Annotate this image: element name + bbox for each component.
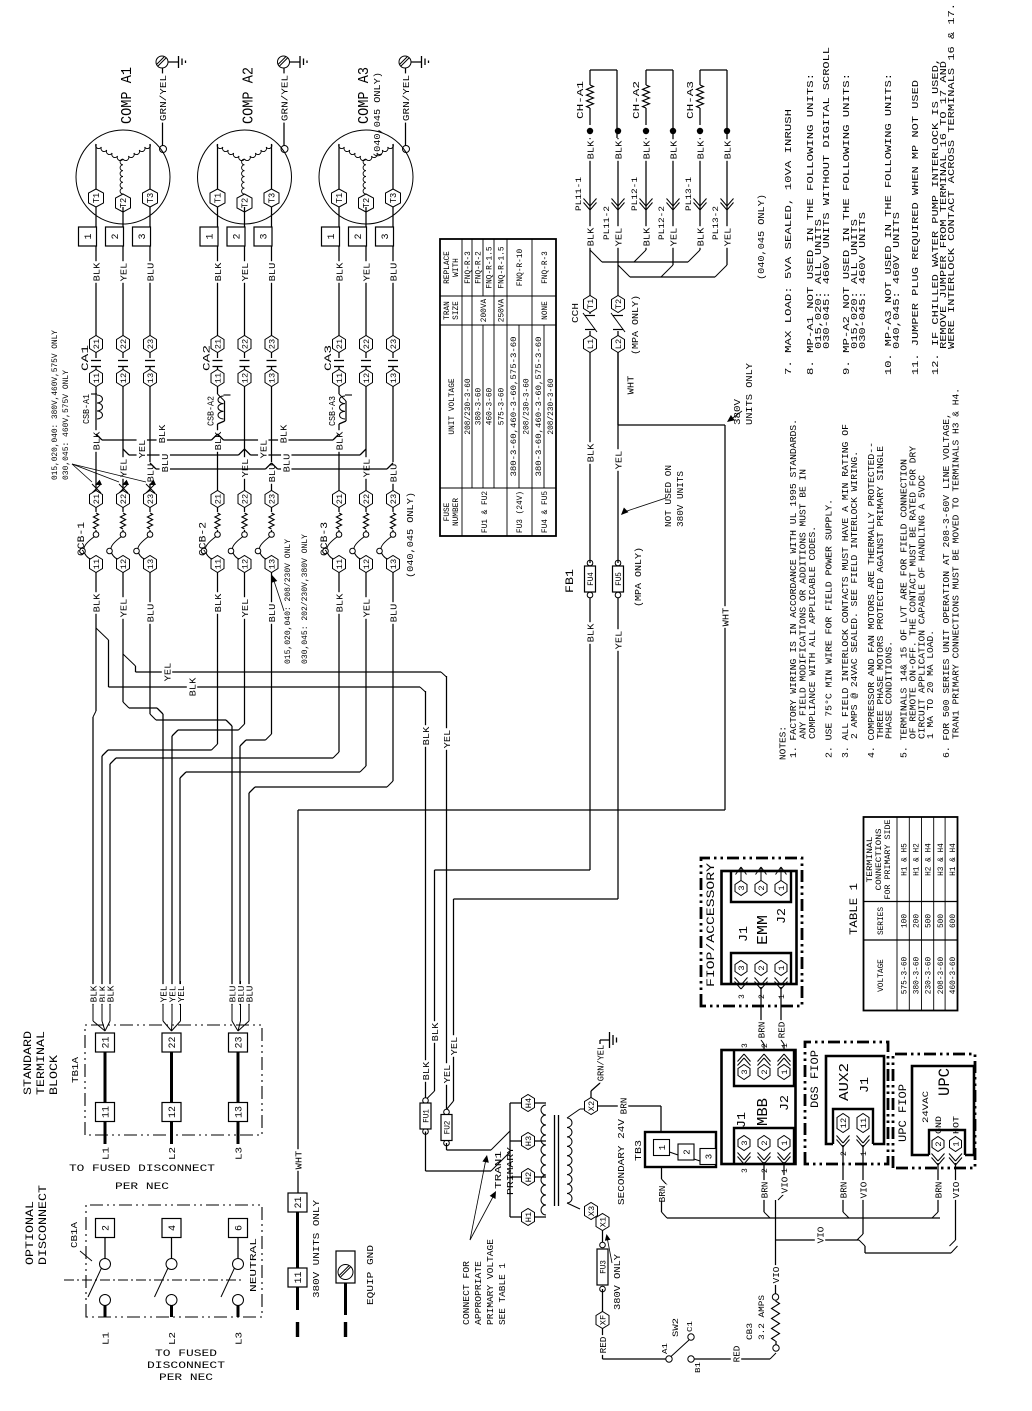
svg-text:PL11-2: PL11-2 <box>603 206 612 240</box>
terminal TB1A 12 <box>162 1103 181 1122</box>
wire PL12-2 <box>668 138 680 265</box>
fuse FU1 <box>420 1098 432 1135</box>
svg-text:J2: J2 <box>778 1095 792 1111</box>
svg-text:BLK: BLK <box>334 262 345 281</box>
svg-text:BLK: BLK <box>695 227 706 246</box>
terminal TB1A 11 <box>96 1103 115 1122</box>
wires CCB-2 outputs <box>212 573 278 652</box>
svg-text:22: 22 <box>119 494 129 504</box>
pin EMM J1 2 <box>755 961 768 1000</box>
svg-text:BLK: BLK <box>695 140 706 159</box>
svg-text:2 AMPS @ 24VAC SEALED. SEE FIE: 2 AMPS @ 24VAC SEALED. SEE FIELD INTERLO… <box>850 451 860 739</box>
svg-text:TRAN1 PRIMARY CONNECTIONS MUST: TRAN1 PRIMARY CONNECTIONS MUST BE MOVED … <box>952 388 962 739</box>
svg-text:DISCONNECT: DISCONNECT <box>38 1185 50 1265</box>
svg-text:YEL: YEL <box>162 662 173 681</box>
svg-text:FOR PRIMARY SIDE: FOR PRIMARY SIDE <box>885 819 893 899</box>
pin MBB J1 2 <box>758 1136 771 1174</box>
wire T2 to PL11-2 <box>613 138 625 296</box>
svg-text:VIO: VIO <box>815 1226 826 1243</box>
terminal neutral 11 <box>288 1268 307 1287</box>
svg-text:TABLE 1: TABLE 1 <box>849 883 861 935</box>
svg-text:TRAN1: TRAN1 <box>493 1151 504 1189</box>
svg-text:2: 2 <box>840 1151 849 1156</box>
wire PL13-1 <box>695 138 707 250</box>
breaker CB3 3.2 AMPS <box>745 1294 780 1351</box>
terminal block TB1A outline <box>85 1025 262 1135</box>
svg-text:H1 & H4: H1 & H4 <box>950 843 958 876</box>
svg-text:FNQ-R-1.5: FNQ-R-1.5 <box>487 246 495 288</box>
svg-text:11: 11 <box>294 1271 305 1283</box>
svg-text:CONNECTIONS: CONNECTIONS <box>876 828 884 890</box>
svg-text:21: 21 <box>335 339 345 349</box>
svg-text:250VA: 250VA <box>499 298 507 322</box>
terminal TRAN1 H4 <box>522 1095 547 1112</box>
wires CCB-3 outputs <box>334 573 400 652</box>
wires CCB-1 outputs <box>91 573 157 652</box>
table fuse replacement <box>440 239 556 536</box>
wire PL12-1 <box>641 138 653 250</box>
svg-text:3: 3 <box>260 233 271 239</box>
svg-text:BLK: BLK <box>91 593 102 612</box>
junction dot PL12-1 <box>643 128 649 134</box>
svg-text:3: 3 <box>741 1043 750 1048</box>
svg-text:FUSE: FUSE <box>444 502 452 521</box>
marker box 3 COMP A3 <box>376 227 394 246</box>
svg-text:BRN: BRN <box>759 1182 770 1199</box>
wire RED XF to SW2 <box>597 1329 665 1360</box>
svg-text:500: 500 <box>926 914 934 928</box>
svg-text:COMPLIANCE WITH ALL APPLICABLE: COMPLIANCE WITH ALL APPLICABLE CODES. <box>808 526 818 739</box>
svg-text:22: 22 <box>119 339 129 349</box>
svg-text:3: 3 <box>381 233 392 239</box>
svg-text:WHT: WHT <box>720 607 731 626</box>
marker box 2 COMP A3 <box>349 227 367 246</box>
bus labels <box>137 423 172 474</box>
svg-text:TERMINAL: TERMINAL <box>867 836 875 882</box>
wire BRN TB3 to bus <box>656 1167 668 1218</box>
svg-text:100: 100 <box>901 914 909 928</box>
svg-text:200VA: 200VA <box>481 298 489 322</box>
svg-text:BLK: BLK <box>668 140 679 159</box>
wire RED SW2 to CB3 <box>694 1344 776 1364</box>
pin MBB J2 2 <box>758 1043 771 1080</box>
marker box 2 COMP A1 <box>106 227 124 246</box>
wire YEL FU2 feed <box>441 676 453 1110</box>
module UPC <box>912 1066 974 1155</box>
svg-text:COMP A1: COMP A1 <box>119 67 136 124</box>
junction dot PL11-1 <box>587 128 593 134</box>
svg-text:1: 1 <box>777 885 787 890</box>
bus BLU rows 1-2 <box>150 463 272 469</box>
switch pole CB1A L3 <box>221 1238 244 1318</box>
tap bus BLK to FU1 <box>96 628 426 698</box>
svg-text:FU4: FU4 <box>587 572 596 586</box>
wire BRN EMM to MBB <box>756 987 768 1049</box>
svg-text:3: 3 <box>737 965 747 970</box>
svg-text:UPC: UPC <box>936 1068 954 1096</box>
fuse FU4 <box>585 560 597 870</box>
junction dot PL12-2 <box>670 128 676 134</box>
svg-text:BRN: BRN <box>618 1098 629 1115</box>
label TO FUSED DISCONNECT PER NEC (CB1A) <box>147 1348 225 1384</box>
wire COMP A2 lead 2 YEL <box>239 207 251 336</box>
svg-text:FNQ-R-10: FNQ-R-10 <box>517 248 525 286</box>
svg-text:3: 3 <box>740 1069 750 1074</box>
module AUX2 <box>826 1056 884 1144</box>
svg-text:NOTES:: NOTES: <box>779 726 789 760</box>
wire T1 to PL11-1 <box>585 138 597 296</box>
svg-text:C1: C1 <box>687 1320 695 1332</box>
bus YEL rows 1-2 <box>123 449 245 455</box>
wire staircase 3 <box>102 651 218 1005</box>
wire RED EMM to MBB <box>776 987 788 1049</box>
current sensor CSB-A2 <box>207 387 231 427</box>
svg-text:BLOCK: BLOCK <box>49 1055 61 1095</box>
svg-text:BRN: BRN <box>756 1022 767 1039</box>
svg-text:T1: T1 <box>214 193 224 203</box>
svg-text:SEE TABLE 1: SEE TABLE 1 <box>498 1263 508 1325</box>
svg-text:13: 13 <box>235 1106 246 1118</box>
current sensor CSB-A1 <box>82 387 103 425</box>
svg-text:UNIT VOLTAGE: UNIT VOLTAGE <box>449 378 457 434</box>
pin AUX2 J1 11 <box>857 1114 870 1157</box>
svg-text:BLU: BLU <box>145 262 156 281</box>
wire YEL FB1 feed <box>447 899 619 1110</box>
svg-text:YEL: YEL <box>442 729 453 748</box>
svg-text:CSB-A1: CSB-A1 <box>82 394 92 424</box>
svg-text:FNQ-R-2: FNQ-R-2 <box>476 251 484 284</box>
contactor CCH pole 2 <box>611 296 625 353</box>
svg-text:600: 600 <box>950 914 958 928</box>
svg-text:460-3-60: 460-3-60 <box>487 387 495 425</box>
svg-text:GRN/YEL: GRN/YEL <box>279 75 290 122</box>
svg-text:CH-A2: CH-A2 <box>631 81 642 119</box>
wire BRN AUX2 to bus <box>838 1145 850 1218</box>
svg-text:BLU: BLU <box>244 985 255 1002</box>
svg-text:L2: L2 <box>167 1147 178 1160</box>
wire CB1A L2 stub <box>167 1332 178 1345</box>
svg-text:VIO: VIO <box>779 1176 790 1193</box>
bus BLK rows 1-2 <box>96 434 218 440</box>
fuse FU3 <box>600 1286 606 1292</box>
svg-text:12: 12 <box>362 373 372 383</box>
svg-text:21: 21 <box>214 339 224 349</box>
svg-text:12: 12 <box>241 373 251 383</box>
box DGS FIOP <box>805 1042 888 1164</box>
svg-text:208-3-60: 208-3-60 <box>938 956 946 994</box>
svg-text:TB3: TB3 <box>633 1140 644 1161</box>
svg-text:L3: L3 <box>234 1147 245 1160</box>
svg-text:BLK: BLK <box>157 424 168 443</box>
svg-text:B1: B1 <box>695 1361 703 1373</box>
note 015,020,040 voltage callout <box>50 330 156 493</box>
svg-text:BLU: BLU <box>145 603 156 622</box>
junction dot PL11-2 <box>615 128 621 134</box>
wire COMP A1 lead 2 YEL <box>118 207 130 336</box>
svg-text:L3: L3 <box>234 1332 245 1345</box>
svg-text:X1: X1 <box>599 1217 609 1227</box>
ground GRN/YEL TRAN1 <box>591 1032 617 1098</box>
svg-text:11: 11 <box>335 559 345 569</box>
label STANDARD TERMINAL BLOCK <box>23 1031 61 1095</box>
svg-text:11: 11 <box>92 559 102 569</box>
svg-text:21: 21 <box>92 339 102 349</box>
svg-text:BLK: BLK <box>641 227 652 246</box>
svg-text:WHT: WHT <box>625 375 636 394</box>
svg-text:015,020,040: 380V,460V,575V ON: 015,020,040: 380V,460V,575V ONLY <box>50 330 60 480</box>
svg-text:1 MA TO 20 MA LOAD.: 1 MA TO 20 MA LOAD. <box>926 630 936 739</box>
pin EMM J1 1 <box>775 961 788 1000</box>
svg-text:1: 1 <box>777 965 787 970</box>
ground EQUIP GND <box>336 1251 355 1283</box>
svg-text:030,045: 460V,575V ONLY: 030,045: 460V,575V ONLY <box>61 370 71 480</box>
svg-text:REPLACE: REPLACE <box>444 251 452 284</box>
wire COMP A1 lead 3 BLU <box>145 207 157 336</box>
svg-text:COMP A3: COMP A3 <box>356 67 373 124</box>
svg-text:(MPA ONLY): (MPA ONLY) <box>633 547 644 607</box>
svg-text:11: 11 <box>214 373 224 383</box>
svg-text:J1: J1 <box>858 1077 872 1093</box>
svg-text:YEL: YEL <box>442 1064 453 1083</box>
svg-text:015,020,040: 208/230V ONLY: 015,020,040: 208/230V ONLY <box>283 539 293 664</box>
svg-text:2: 2 <box>683 1149 693 1154</box>
terminal TRAN1 H1 <box>522 1209 547 1226</box>
contactor CCH pole 1 <box>583 296 597 353</box>
terminal CB1A 4 <box>162 1219 181 1238</box>
svg-text:3: 3 <box>741 1168 750 1173</box>
svg-text:2: 2 <box>757 965 767 970</box>
svg-text:208/230-3-60: 208/230-3-60 <box>524 378 532 434</box>
motor COMP A3 <box>319 130 413 224</box>
svg-text:YEL: YEL <box>361 262 372 281</box>
svg-text:YEL: YEL <box>240 458 251 477</box>
svg-text:23: 23 <box>235 1036 246 1048</box>
svg-text:380-3-60: 380-3-60 <box>476 387 484 425</box>
wire CH-A3 return <box>700 70 727 138</box>
svg-text:FU2: FU2 <box>444 1120 453 1134</box>
label 380V ONLY arrow <box>605 1234 623 1310</box>
svg-text:FNQ-R-3: FNQ-R-3 <box>465 251 473 284</box>
svg-text:23: 23 <box>389 494 399 504</box>
wire VIO MBB J1 to bus <box>778 1162 790 1200</box>
bus BLU rows 2-3 <box>272 463 394 469</box>
svg-text:21: 21 <box>102 1036 113 1048</box>
terminal XF <box>596 1289 609 1329</box>
svg-text:BLK: BLK <box>91 262 102 281</box>
svg-text:YEL: YEL <box>668 227 679 246</box>
svg-text:22: 22 <box>241 339 251 349</box>
svg-text:BLU: BLU <box>388 262 399 281</box>
wire BRN MBB J1 to bus <box>759 1162 771 1218</box>
svg-text:T1: T1 <box>92 193 102 203</box>
svg-text:CCB-3: CCB-3 <box>320 522 331 556</box>
wire BLK FB1 feed <box>426 870 591 1100</box>
marker box 3 COMP A1 <box>133 227 151 246</box>
svg-text:YEL: YEL <box>722 227 733 246</box>
wire CA1 to CCB-1 <box>91 387 157 491</box>
pin EMM J2 1 <box>775 867 787 896</box>
svg-text:NONE: NONE <box>542 301 550 320</box>
svg-text:YEL: YEL <box>240 262 251 281</box>
svg-text:GRN/YEL: GRN/YEL <box>158 75 169 122</box>
svg-text:380V UNITS ONLY: 380V UNITS ONLY <box>311 1200 322 1298</box>
svg-text:WHT: WHT <box>293 1150 304 1169</box>
svg-text:1: 1 <box>781 1043 790 1048</box>
svg-text:BLK: BLK <box>722 140 733 159</box>
terminal TB1A 13 <box>229 1103 248 1122</box>
svg-text:(040,045 ONLY): (040,045 ONLY) <box>405 492 416 578</box>
svg-text:2: 2 <box>761 1168 770 1173</box>
wire fan BLU into TB1A 23 <box>227 981 256 1031</box>
svg-text:YEL: YEL <box>118 262 129 281</box>
svg-text:L2: L2 <box>614 339 624 349</box>
wire PL13-2 <box>722 138 734 265</box>
junction dot PL13-2 <box>724 128 730 134</box>
svg-text:208/230-3-60: 208/230-3-60 <box>465 378 473 434</box>
svg-text:XF: XF <box>599 1315 609 1325</box>
svg-text:FB1: FB1 <box>565 569 577 593</box>
wire staircase 7 <box>180 651 366 1005</box>
svg-text:030,045: 202/230V,380V ONLY: 030,045: 202/230V,380V ONLY <box>300 534 310 664</box>
wire TB1A 12-22 link <box>170 1052 173 1103</box>
svg-text:H2 & H4: H2 & H4 <box>926 843 934 876</box>
heater CH-A1 <box>575 70 594 125</box>
svg-text:PER NEC: PER NEC <box>115 1182 169 1193</box>
svg-text:4: 4 <box>168 1225 179 1231</box>
svg-text:A1: A1 <box>662 1342 670 1354</box>
svg-text:13: 13 <box>268 559 278 569</box>
pin MBB J1 1 <box>778 1136 791 1174</box>
terminal TRAN1 H3 <box>522 1133 547 1150</box>
wire X1 to FU3 <box>602 1231 604 1243</box>
wire staircase A1 BLK <box>93 651 96 1005</box>
wire COMP A2 lead 1 BLK <box>212 207 224 336</box>
svg-text:GRN/YEL: GRN/YEL <box>595 1045 606 1082</box>
svg-text:23: 23 <box>146 339 156 349</box>
terminal TRAN1 X3 <box>585 1203 598 1220</box>
bus labels <box>258 423 293 474</box>
svg-text:ANY FIELD MODIFICATIONS OR ADD: ANY FIELD MODIFICATIONS OR ADDITIONS MUS… <box>799 469 809 739</box>
wire COMP A2 lead 3 BLU <box>266 207 278 336</box>
bus BRN <box>667 1217 940 1219</box>
wire FU1 output to primary <box>426 1132 511 1172</box>
wire FU4 to CCH <box>585 353 597 644</box>
module MBB <box>722 1050 796 1164</box>
svg-text:X2: X2 <box>587 1101 597 1111</box>
wire neutral link <box>296 1212 299 1268</box>
notes 1-6 <box>779 388 962 760</box>
svg-text:VIO: VIO <box>951 1181 962 1198</box>
svg-text:2: 2 <box>758 994 767 999</box>
svg-text:RED: RED <box>598 1336 609 1353</box>
svg-text:575-3-60: 575-3-60 <box>499 387 507 425</box>
terminal TRAN1 H2 <box>522 1169 547 1186</box>
wire BRN X2 to TB3 <box>598 1096 662 1132</box>
tap bus YEL to FU2 <box>123 654 447 683</box>
svg-text:12: 12 <box>119 559 129 569</box>
heater CH-A3 <box>685 70 704 125</box>
wire CB1A L3 stub <box>234 1332 245 1345</box>
svg-text:2: 2 <box>102 1225 113 1231</box>
junction dot PL13-1 <box>697 128 703 134</box>
svg-text:FU5: FU5 <box>615 572 624 586</box>
motor COMP A2 <box>198 130 292 224</box>
svg-text:CB1A: CB1A <box>69 1222 80 1248</box>
svg-text:BLK: BLK <box>421 1061 432 1080</box>
svg-text:YEL: YEL <box>361 598 372 617</box>
note 208/230V callout CCB <box>271 534 310 664</box>
svg-text:GND: GND <box>935 1116 944 1134</box>
wire CB1A L1 stub <box>101 1332 112 1345</box>
svg-text:1: 1 <box>84 233 95 239</box>
svg-text:13: 13 <box>146 559 156 569</box>
svg-text:BRN: BRN <box>933 1182 944 1199</box>
svg-text:YEL: YEL <box>361 458 372 477</box>
terminal TRAN1 X2 <box>585 1098 598 1115</box>
switch pole CB1A L2 <box>155 1238 178 1318</box>
svg-text:11: 11 <box>859 1118 869 1128</box>
wire COMP A1 lead 1 BLK <box>91 207 103 336</box>
wire TB1A 11-21 link <box>104 1052 107 1103</box>
svg-text:21: 21 <box>294 1196 305 1208</box>
svg-text:380-3-60: 380-3-60 <box>914 956 922 994</box>
svg-text:2: 2 <box>760 1069 770 1074</box>
svg-text:L2: L2 <box>167 1332 178 1345</box>
svg-text:CH-A3: CH-A3 <box>685 81 696 119</box>
svg-text:DISCONNECT: DISCONNECT <box>147 1360 225 1372</box>
svg-text:12: 12 <box>839 1118 849 1128</box>
svg-text:1: 1 <box>327 233 338 239</box>
svg-text:BLK: BLK <box>430 1022 441 1041</box>
svg-text:3: 3 <box>737 885 747 890</box>
marker box 1 COMP A2 <box>200 227 218 246</box>
svg-text:208/230-3-60: 208/230-3-60 <box>548 378 556 434</box>
svg-text:T2: T2 <box>119 198 129 208</box>
svg-text:BLK: BLK <box>187 677 198 696</box>
svg-text:NEUTRAL: NEUTRAL <box>248 1238 259 1292</box>
svg-text:3: 3 <box>738 994 747 999</box>
svg-text:030-045: 460V UNITS WITHOUT DI: 030-045: 460V UNITS WITHOUT DIGITAL SCRO… <box>822 47 832 349</box>
svg-text:11: 11 <box>335 373 345 383</box>
plug PL12-1 <box>631 177 653 211</box>
svg-text:1. FACTORY WIRING IS IN ACCOR: 1. FACTORY WIRING IS IN ACCORDANCE WITH … <box>789 419 799 758</box>
svg-text:2: 2 <box>761 1043 770 1048</box>
wire VIO AUX2 to bus <box>857 1145 869 1240</box>
circuit breaker CCB-2 <box>201 491 278 573</box>
svg-text:PHASE CONDITIONS.: PHASE CONDITIONS. <box>885 641 895 739</box>
wire CH-A1 return <box>590 70 617 138</box>
contactor CA2 <box>211 336 278 387</box>
svg-text:BLU: BLU <box>282 453 293 472</box>
svg-text:BLU: BLU <box>267 603 278 622</box>
svg-text:CH-A1: CH-A1 <box>575 81 586 119</box>
plug PL12-2 <box>658 199 680 241</box>
switch SW2 <box>662 1318 703 1373</box>
svg-text:BLK: BLK <box>334 593 345 612</box>
motor COMP A1 <box>76 130 170 224</box>
svg-text:BLK: BLK <box>279 424 290 443</box>
svg-text:YEL: YEL <box>613 450 624 469</box>
wire COMP A3 lead 1 BLK <box>334 207 346 336</box>
svg-text:11: 11 <box>214 559 224 569</box>
svg-text:FU3: FU3 <box>600 1260 609 1274</box>
svg-text:TB1A: TB1A <box>70 1057 81 1083</box>
svg-text:PRIMARY VOLTAGE: PRIMARY VOLTAGE <box>486 1239 496 1325</box>
svg-text:2: 2 <box>233 233 244 239</box>
svg-text:BLU: BLU <box>267 262 278 281</box>
svg-text:3: 3 <box>138 233 149 239</box>
linkage dash-dot CB1A <box>64 1279 242 1281</box>
